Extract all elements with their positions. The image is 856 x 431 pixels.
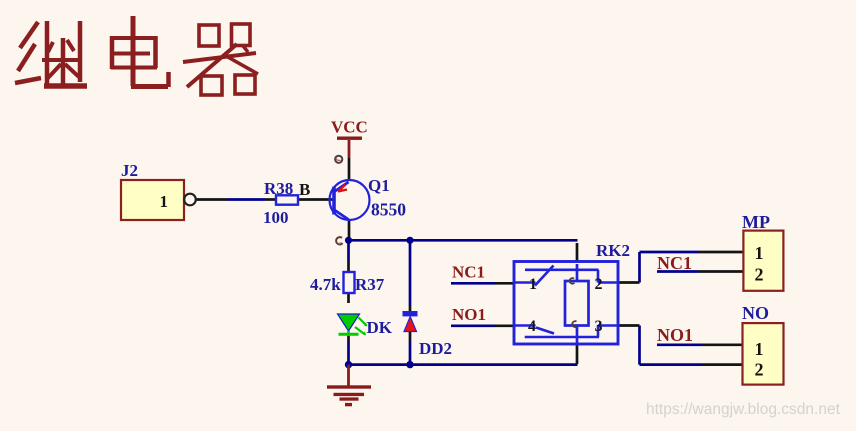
svg-text:NC1: NC1: [657, 253, 692, 273]
svg-text:100: 100: [263, 208, 289, 227]
svg-text:2: 2: [595, 276, 603, 293]
svg-text:MP: MP: [742, 212, 770, 232]
svg-text:DK: DK: [367, 318, 393, 337]
svg-text:4: 4: [528, 318, 536, 335]
svg-text:R37: R37: [355, 275, 385, 294]
svg-text:NO1: NO1: [452, 305, 486, 324]
svg-text:https://wangjw.blog.csdn.net: https://wangjw.blog.csdn.net: [646, 401, 841, 418]
svg-text:1: 1: [755, 243, 764, 263]
svg-text:Q1: Q1: [368, 176, 390, 195]
svg-text:1: 1: [160, 192, 169, 211]
svg-text:NO: NO: [742, 303, 769, 323]
svg-text:1: 1: [529, 276, 537, 293]
svg-text:DD2: DD2: [419, 339, 452, 358]
svg-text:J2: J2: [121, 161, 138, 180]
svg-text:1: 1: [755, 339, 764, 359]
svg-text:3: 3: [595, 318, 603, 335]
svg-text:RK2: RK2: [596, 241, 630, 260]
svg-text:4.7k: 4.7k: [310, 275, 341, 294]
svg-text:R38: R38: [264, 179, 293, 198]
svg-text:2: 2: [755, 360, 764, 380]
svg-text:B: B: [299, 180, 310, 199]
svg-text:VCC: VCC: [331, 118, 368, 137]
svg-text:NO1: NO1: [657, 325, 693, 345]
svg-text:2: 2: [755, 265, 764, 285]
svg-text:8550: 8550: [371, 200, 406, 220]
svg-text:NC1: NC1: [452, 263, 485, 282]
